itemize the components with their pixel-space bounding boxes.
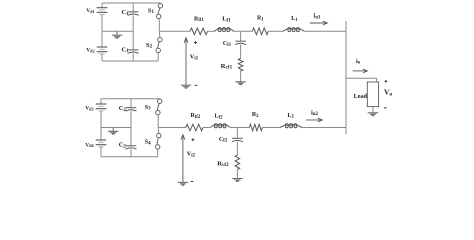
svg-text:Rcf2: Rcf2 (217, 160, 229, 168)
arrow io1 (310, 22, 327, 24)
wire below Vd2 (101, 54, 103, 61)
inductor L1 (288, 29, 291, 32)
wire between mid and Vd2 (101, 31, 103, 47)
battery Vd1 (97, 7, 108, 9)
svg-text:Vd3: Vd3 (85, 106, 93, 112)
svg-text:Rcf1: Rcf1 (221, 63, 233, 71)
svg-text:R2: R2 (252, 112, 259, 119)
wire bottom rail of upper bridge (102, 60, 158, 62)
wire lower battery leg top (100, 99, 102, 104)
minus Vi2 (191, 181, 194, 183)
wire Rlf1 to Lf1 (208, 30, 215, 32)
ground lower mid (112, 128, 114, 132)
resistor Rcf1 (238, 59, 243, 72)
arrow Vi2 (182, 136, 184, 183)
wire R1 to L1 (268, 30, 283, 32)
svg-text:Vd1: Vd1 (86, 8, 94, 14)
wire Cf2 to Rcf2 (236, 142, 238, 155)
wire top rail of upper bridge (102, 2, 160, 4)
svg-text:Rlf1: Rlf1 (194, 16, 204, 23)
capacitor Cf2 (232, 137, 243, 139)
plus Vi2 (192, 139, 195, 141)
wire S1 top stub (159, 2, 161, 5)
resistor Rlf2 (186, 124, 203, 131)
ground load (368, 112, 378, 114)
minus Vo (384, 107, 387, 109)
wire node to S4 (157, 128, 160, 134)
wire node to Rlf2 (158, 127, 186, 129)
wire node to S2 (158, 31, 161, 37)
wire below Vd4 (100, 147, 102, 157)
svg-text:Vd4: Vd4 (85, 142, 94, 148)
ground Rcf1 (235, 81, 245, 83)
svg-text:Cf2: Cf2 (219, 137, 228, 144)
arrow Vi1 (185, 39, 187, 85)
wire between mid and Vd4 (100, 128, 102, 141)
wire output bus (345, 21, 347, 134)
wire between Vd3 and mid (100, 111, 102, 128)
resistor Rlf1 (190, 28, 208, 35)
wire between Vd1 and mid (101, 15, 103, 32)
node Cf2 junction / wire down (236, 128, 238, 139)
ground upper mid (116, 31, 118, 35)
svg-text:Lf2: Lf2 (214, 114, 223, 121)
load box (367, 82, 378, 107)
svg-text:R1: R1 (257, 16, 264, 23)
wire S3 top stub (159, 98, 161, 100)
plus Vo (385, 80, 387, 82)
svg-text:Load: Load (354, 94, 368, 100)
svg-text:io: io (356, 59, 361, 66)
battery Vd3 (96, 103, 107, 105)
wire Rcf2 to ground (236, 170, 238, 179)
wire S1 to node (158, 19, 160, 32)
wire below C1 bottom (132, 53, 134, 61)
arrow io (353, 70, 367, 72)
ground Rcf2 (232, 178, 242, 180)
wire upper cap leg top (132, 3, 134, 12)
wire between C1s (132, 15, 134, 50)
wire bus to load (346, 77, 377, 79)
switch S4 (157, 133, 161, 137)
wire lower mid rail (101, 127, 131, 129)
switch S1 (158, 4, 162, 8)
battery Vd2 (97, 46, 108, 48)
svg-text:Vd2: Vd2 (86, 48, 94, 54)
wire S2 to bottom (157, 53, 159, 61)
ground Vi1 (181, 84, 191, 86)
resistor R1 (252, 28, 268, 35)
wire upper mid rail (102, 30, 133, 32)
battery Vd4 (96, 139, 107, 141)
wire below C2 bottom (130, 149, 132, 157)
capacitor C2 bottom (126, 145, 137, 147)
wire L2 to bus (302, 127, 346, 129)
wire between C2s (130, 111, 132, 146)
wire load to ground (372, 107, 374, 113)
wire Rlf2 to Lf2 (203, 127, 210, 129)
resistor Rcf2 (235, 155, 240, 170)
svg-text:Cf1: Cf1 (223, 41, 232, 48)
wire node to Rlf1 (159, 30, 190, 32)
wire Rcf1 to ground (240, 71, 242, 82)
svg-text:io2: io2 (311, 109, 318, 117)
wire lower cap leg top (130, 99, 132, 108)
svg-text:io1: io1 (313, 13, 320, 21)
wire S4 to bottom (157, 149, 159, 157)
svg-text:L2: L2 (287, 113, 294, 120)
wire Lf1 to R1 (234, 30, 253, 32)
svg-text:Lf1: Lf1 (222, 16, 231, 24)
inductor L2 (285, 125, 288, 128)
arrow io2 (306, 119, 322, 121)
wire bottom rail of lower bridge (101, 156, 158, 158)
capacitor C2 top (126, 107, 137, 109)
inductor Lf2 (215, 125, 218, 128)
svg-text:L1: L1 (291, 16, 298, 23)
capacitor C1 top (128, 11, 139, 13)
wire upper battery leg top (101, 3, 103, 8)
inductor Lf1 (218, 29, 221, 32)
resistor R2 (249, 124, 262, 131)
node Cf1 junction / wire down (240, 31, 242, 41)
switch S2 (158, 37, 162, 41)
capacitor C1 bottom (128, 49, 139, 51)
switch S3 (158, 99, 162, 103)
wire S3 to node (157, 115, 159, 128)
wire top rail of lower bridge (101, 98, 160, 100)
ground Vi2 (178, 181, 188, 183)
wire Cf1 to Rcf1 (240, 45, 242, 59)
plus Vi1 (194, 42, 197, 44)
wire L1 to bus (305, 30, 346, 32)
minus Vi1 (195, 84, 198, 86)
wire R2 to L2 (262, 127, 280, 129)
wire Lf2 to R2 (231, 127, 250, 129)
capacitor Cf1 (235, 40, 246, 42)
svg-text:Rlf2: Rlf2 (191, 113, 201, 120)
